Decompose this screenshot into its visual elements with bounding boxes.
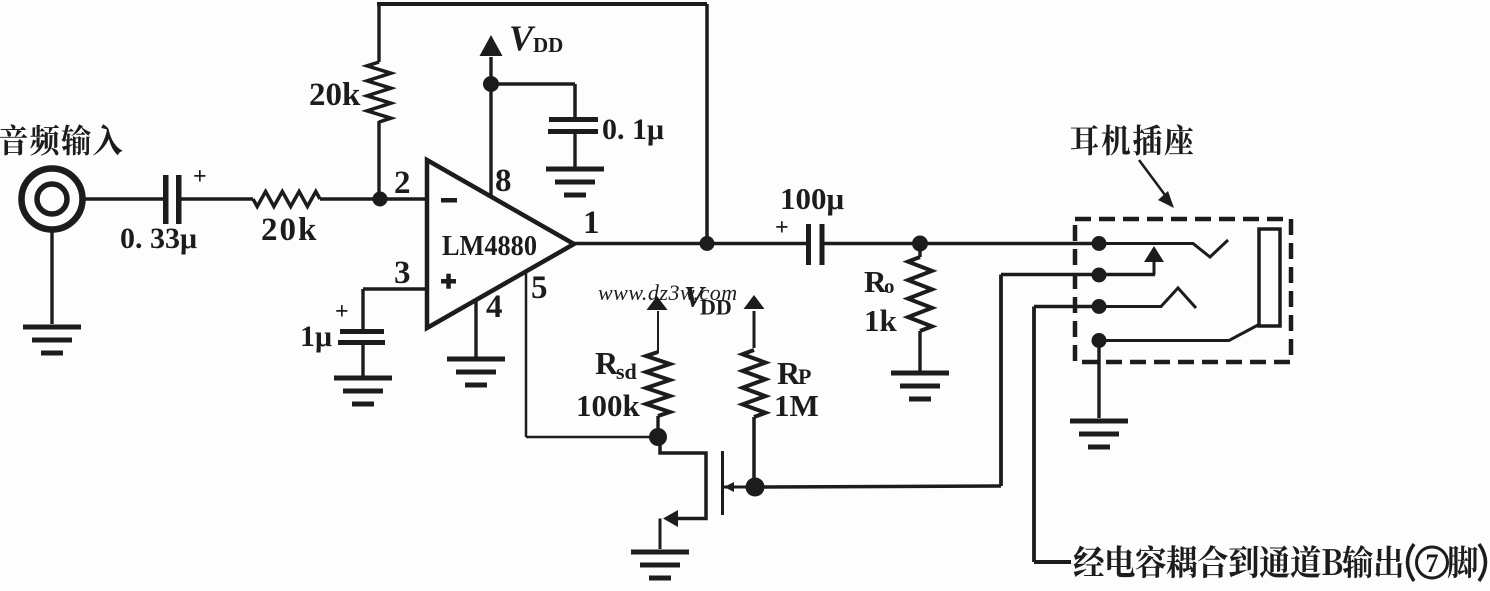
svg-text:8: 8 (495, 163, 512, 199)
svg-text:100k: 100k (576, 388, 641, 423)
svg-text:1k: 1k (864, 303, 898, 338)
svg-text:1: 1 (583, 205, 600, 241)
svg-text:1μ: 1μ (300, 320, 332, 353)
svg-text:+: + (775, 215, 789, 241)
svg-text:o: o (884, 274, 895, 298)
svg-text:2: 2 (394, 165, 411, 201)
svg-text:20k: 20k (261, 212, 318, 248)
svg-text:5: 5 (531, 270, 548, 306)
svg-text:V: V (509, 18, 536, 58)
svg-text:www.dz3w.com: www.dz3w.com (598, 280, 738, 305)
svg-text:4: 4 (486, 289, 503, 325)
svg-text:0. 33μ: 0. 33μ (120, 222, 197, 255)
svg-text:LM4880: LM4880 (442, 230, 537, 262)
svg-text:7: 7 (1426, 549, 1439, 578)
svg-text:20k: 20k (309, 77, 361, 113)
svg-text:0. 1μ: 0. 1μ (602, 113, 664, 146)
svg-text:+: + (193, 164, 207, 190)
svg-text:P: P (798, 364, 811, 389)
svg-text:100μ: 100μ (780, 181, 845, 216)
svg-text:+: + (335, 299, 349, 325)
svg-text:sd: sd (616, 359, 637, 384)
svg-text:DD: DD (533, 33, 563, 57)
svg-text:3: 3 (394, 255, 411, 291)
svg-text:1M: 1M (774, 388, 819, 423)
